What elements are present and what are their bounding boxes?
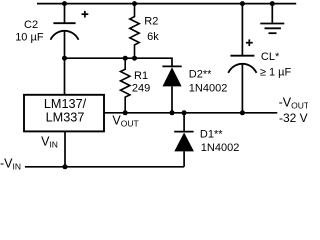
wire -VIN rail — [25, 166, 184, 168]
svg-text:D1**: D1** — [200, 128, 223, 140]
resistor R2 — [130, 4, 139, 59]
svg-text:R2: R2 — [144, 15, 158, 27]
op-amp regulator box U1 LM137/LM337 — [24, 95, 104, 132]
junction mid rail / R1 — [123, 56, 128, 61]
junction top rail / R2 — [132, 1, 137, 6]
svg-text:6k: 6k — [147, 31, 159, 43]
svg-text:-VOUT: -VOUT — [279, 95, 308, 110]
wire output rail — [104, 112, 277, 114]
svg-text:C2: C2 — [24, 19, 38, 31]
junction mid rail / C2 — [62, 56, 67, 61]
junction output rail / D2 — [170, 110, 175, 115]
svg-text:CL*: CL* — [261, 51, 280, 63]
svg-text:VOUT: VOUT — [112, 114, 138, 129]
capacitor CL — [228, 4, 256, 113]
resistor R1 — [120, 58, 129, 113]
junction top rail / ground — [270, 1, 275, 6]
svg-text:1N4002: 1N4002 — [201, 142, 240, 154]
junction output rail / CL — [240, 110, 245, 115]
svg-text:≥ 1 µF: ≥ 1 µF — [260, 66, 292, 78]
svg-text:10 µF: 10 µF — [15, 32, 44, 44]
junction top rail / CL — [240, 1, 245, 6]
svg-text:-VIN: -VIN — [0, 157, 21, 172]
svg-text:249: 249 — [132, 83, 150, 95]
wire C2 bottom lead to regulator input node — [64, 31, 66, 95]
svg-text:D2**: D2** — [189, 68, 212, 80]
junction output rail / R1 — [123, 110, 128, 115]
junction mid rail / R2 — [132, 56, 137, 61]
wire top rail — [37, 3, 296, 5]
svg-text:1N4002: 1N4002 — [189, 82, 228, 94]
wire regulator bottom lead — [64, 131, 66, 166]
svg-text:LM137/: LM137/ — [44, 97, 87, 111]
junction top rail / C2 — [62, 1, 67, 6]
plus sign of CL — [246, 39, 253, 46]
svg-text:VIN: VIN — [41, 135, 58, 150]
diode D2 — [162, 66, 181, 112]
capacitor C2 — [51, 23, 79, 40]
wire mid rail (adjust node) — [65, 58, 173, 65]
junction output rail / D1 — [182, 110, 187, 115]
ground — [260, 4, 284, 34]
svg-text:-32 V: -32 V — [279, 111, 308, 125]
plus sign of C2 — [82, 11, 89, 18]
diode D1 — [174, 113, 194, 167]
junction -VIN rail / regulator — [63, 164, 68, 169]
wire C2 top lead — [64, 4, 66, 24]
svg-text:LM337: LM337 — [46, 111, 85, 125]
svg-text:R1: R1 — [134, 70, 148, 82]
